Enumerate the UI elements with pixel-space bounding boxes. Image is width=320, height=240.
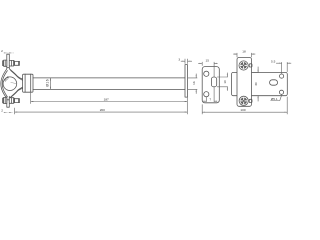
svg-text:18: 18	[242, 50, 246, 54]
svg-text:2: 2	[1, 108, 3, 112]
svg-text:100: 100	[240, 108, 245, 112]
svg-text:5.5: 5.5	[271, 59, 276, 63]
svg-text:10: 10	[223, 80, 227, 84]
svg-text:187: 187	[104, 98, 109, 102]
svg-text:7: 7	[209, 97, 211, 101]
svg-text:Ø16: Ø16	[45, 79, 49, 87]
svg-text:30: 30	[254, 82, 258, 86]
svg-text:Ø5.1: Ø5.1	[271, 97, 278, 101]
svg-text:3: 3	[178, 57, 180, 61]
svg-text:200: 200	[100, 108, 105, 112]
svg-text:15: 15	[205, 59, 209, 63]
svg-text:2: 2	[1, 49, 3, 53]
svg-text:16: 16	[192, 81, 196, 85]
